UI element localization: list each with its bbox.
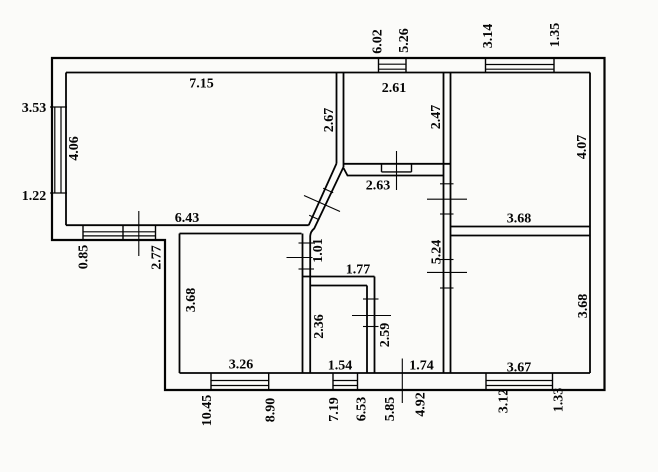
dimension tick 2.63 (396, 151, 398, 190)
svg-text:3.26: 3.26 (229, 358, 254, 373)
wall D upper line (451, 226, 591, 228)
bath top wall outer line (303, 276, 375, 278)
window left-wall pane line outer (54, 107, 56, 193)
window bottom-left divider tick (122, 225, 124, 240)
window bottom-1 band upper (211, 380, 269, 382)
door 1.01 tick lower (299, 268, 315, 270)
window top-2 left tick (485, 58, 487, 73)
svg-text:5.85: 5.85 (383, 397, 398, 422)
window bottom-2 band lower (333, 385, 358, 387)
window bottom-1 band lower (211, 385, 269, 387)
door 1.01 tick upper (299, 242, 315, 244)
inner wall line top (66, 72, 590, 74)
svg-text:1.54: 1.54 (328, 359, 353, 374)
svg-text:2.67: 2.67 (322, 108, 337, 133)
svg-text:2.63: 2.63 (366, 179, 391, 194)
wall B upper line (344, 163, 451, 165)
diagonal wall inner line (310, 167, 343, 240)
bath door tick upper (363, 298, 379, 300)
svg-text:2.47: 2.47 (429, 105, 444, 130)
diagonal door tick upper (323, 188, 333, 192)
svg-text:1.22: 1.22 (22, 189, 47, 204)
svg-text:1.77: 1.77 (346, 263, 371, 278)
wall C door2 tick lower (440, 287, 454, 289)
svg-text:8.90: 8.90 (263, 398, 278, 423)
svg-text:6.53: 6.53 (355, 397, 370, 422)
window bottom-2 band upper (333, 380, 358, 382)
diagonal door long tick (304, 196, 340, 212)
svg-text:2.77: 2.77 (150, 245, 165, 270)
svg-text:3.53: 3.53 (22, 101, 47, 116)
outer wall perimeter (52, 58, 605, 390)
window bottom-2 right tick (357, 373, 359, 390)
window bottom-1 right tick (268, 373, 270, 390)
bath left wall outer line (302, 234, 304, 374)
svg-text:2.59: 2.59 (378, 323, 393, 348)
window left-wall top tick (50, 106, 67, 108)
svg-text:3.12: 3.12 (497, 389, 512, 414)
window bottom-3 band lower (486, 385, 553, 387)
bath right wall outer line (374, 277, 376, 374)
wall B lower line (344, 168, 444, 176)
svg-text:6.02: 6.02 (371, 29, 386, 54)
window bottom-left end tick A (82, 225, 84, 240)
wall room1 bottom inner line (66, 224, 309, 226)
window top-2 band lower (486, 68, 555, 70)
svg-text:4.06: 4.06 (67, 136, 82, 161)
svg-text:3.68: 3.68 (184, 288, 199, 313)
window left-wall bottom tick (50, 192, 67, 194)
dimension tick 0.85/2.77 (138, 211, 140, 256)
wall C left line (443, 73, 445, 374)
wall B door jamb left (381, 164, 383, 172)
window bottom-3 band upper (486, 380, 553, 382)
bath right wall inner line (366, 286, 368, 374)
wall C door2 long tick (427, 271, 467, 273)
window top-1 left tick (378, 58, 380, 73)
inner wall line left (65, 73, 67, 226)
svg-text:3.14: 3.14 (481, 24, 496, 49)
inner wall line bottom (180, 372, 591, 374)
wall C door1 tick lower (440, 213, 454, 215)
wall D lower line (451, 235, 591, 237)
svg-text:2.36: 2.36 (312, 314, 327, 339)
window bottom-1 left tick (210, 373, 212, 390)
svg-text:5.26: 5.26 (397, 28, 412, 53)
window top-1 band upper (379, 63, 407, 65)
wall C door1 long tick (427, 198, 467, 200)
window bottom-left band lower (83, 235, 156, 237)
bath left wall inner line (309, 240, 311, 373)
window left-wall pane line inner (60, 107, 62, 193)
svg-text:3.67: 3.67 (507, 361, 532, 376)
wall B door jamb right (411, 164, 413, 172)
svg-text:1.33: 1.33 (552, 388, 567, 413)
wall A right line (343, 73, 345, 168)
svg-text:3.68: 3.68 (576, 294, 591, 319)
dimension tick 4.92 (401, 359, 403, 404)
svg-text:5.24: 5.24 (430, 240, 445, 265)
wall B door sill line (382, 171, 412, 173)
svg-text:7.19: 7.19 (327, 397, 342, 422)
window bottom-left end tick B (155, 225, 157, 240)
window top-2 right tick (553, 58, 555, 73)
svg-text:6.43: 6.43 (175, 211, 200, 226)
bath door tick lower (363, 326, 379, 328)
svg-text:3.68: 3.68 (507, 212, 532, 227)
window top-1 band lower (379, 68, 407, 70)
window bottom-3 right tick (552, 373, 554, 390)
diagonal door tick lower (309, 215, 319, 219)
door 1.01 long tick (287, 257, 313, 259)
svg-text:2.61: 2.61 (382, 81, 407, 96)
wall C door2 tick upper (440, 259, 454, 261)
inner wall line left-bottom (179, 234, 181, 374)
svg-text:4.92: 4.92 (413, 392, 428, 417)
bath door long tick (352, 315, 391, 317)
svg-text:10.45: 10.45 (200, 395, 215, 427)
inner wall line right (589, 73, 591, 374)
window bottom-2 left tick (332, 373, 334, 390)
svg-text:4.07: 4.07 (575, 135, 590, 160)
diagonal wall outer line (309, 164, 337, 226)
window bottom-left band upper (83, 231, 156, 233)
corridor wall lower line (180, 233, 302, 235)
bath top wall inner line (310, 285, 367, 287)
window bottom-3 left tick (485, 373, 487, 390)
svg-text:1.01: 1.01 (311, 238, 326, 263)
window top-1 right tick (405, 58, 407, 73)
svg-text:1.74: 1.74 (409, 359, 434, 374)
window top-2 band upper (486, 64, 555, 66)
wall C door1 tick upper (440, 183, 454, 185)
svg-text:7.15: 7.15 (189, 77, 214, 92)
wall A left line (336, 73, 338, 164)
svg-text:0.85: 0.85 (77, 245, 92, 270)
wall C right line (450, 73, 452, 374)
svg-text:1.35: 1.35 (548, 23, 563, 48)
